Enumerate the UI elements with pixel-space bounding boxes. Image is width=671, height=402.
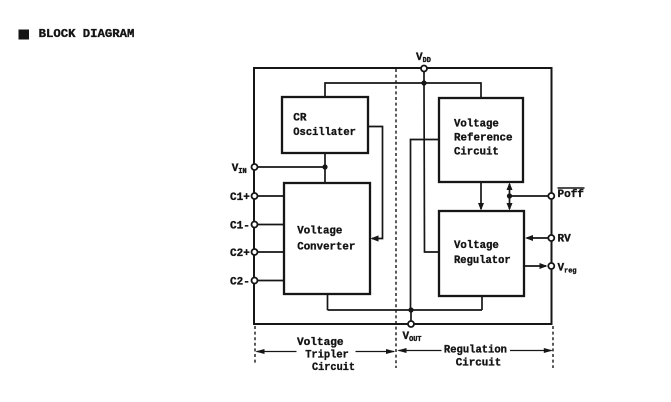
pin Vreg terminal circle [548, 263, 554, 269]
node: junction dot Poff [507, 193, 512, 198]
node: junction dot VDD bus [421, 80, 426, 85]
wire: CR Oscillator feedback to Voltage Converter [368, 127, 383, 239]
svg-text:Tripler: Tripler [305, 350, 349, 362]
svg-text:VIN: VIN [232, 163, 247, 176]
wire: VDD branch down to Voltage Regulator left [424, 83, 439, 252]
wire: C2- pin to Voltage Converter [255, 280, 284, 282]
pin C1- terminal circle [252, 222, 258, 228]
dashed extension right [552, 326, 554, 368]
wire: C1+ pin to Voltage Converter [255, 195, 284, 197]
arrowhead into Voltage Converter right edge [371, 235, 379, 241]
wire: C1- pin to Voltage Converter [255, 224, 284, 226]
dimension line Regulation span [397, 348, 553, 353]
wire: CR Oscillator bottom stub to Voltage Converter top [324, 153, 326, 183]
svg-text:Circuit: Circuit [454, 147, 499, 159]
IC boundary outer rectangle [254, 68, 552, 324]
svg-text:C1+: C1+ [230, 192, 250, 204]
Voltage Regulator box U4 [439, 211, 524, 296]
svg-text:Poff: Poff [558, 189, 585, 201]
svg-text:C2+: C2+ [230, 248, 250, 260]
wire: RV pin line [527, 237, 551, 239]
svg-text:Voltage: Voltage [454, 119, 499, 131]
svg-text:CR: CR [293, 113, 307, 125]
svg-text:Reference: Reference [454, 133, 513, 145]
wire: Poff pin line [510, 195, 552, 197]
wire: VOUT riser to Voltage Reference Circuit [411, 140, 440, 311]
svg-text:VDD: VDD [416, 52, 431, 65]
pin C2+ terminal circle [252, 249, 258, 255]
CR Oscillator box U1 [282, 97, 368, 153]
svg-text:Oscillater: Oscillater [293, 127, 356, 139]
wire: Voltage Converter bottom stub [327, 294, 329, 310]
pin Poff terminal circle [548, 193, 554, 199]
wire: VIN pin to CR Oscillator / Voltage Converter stub [255, 166, 325, 168]
svg-text:Voltage: Voltage [297, 337, 344, 349]
pin VIN terminal circle [252, 164, 258, 170]
svg-text:Regulator: Regulator [454, 255, 511, 267]
svg-text:Circuit: Circuit [312, 362, 355, 374]
Voltage Reference Circuit box U3 [439, 98, 523, 182]
wire: VDD stub from pin to supply bus [423, 69, 425, 84]
dimension line Voltage Tripler span [255, 349, 395, 354]
Voltage Converter box U2 [284, 183, 370, 294]
wire: double arrow link Reference/Regulator [509, 184, 511, 209]
node: junction dot VIN [322, 164, 327, 169]
title bullet square [19, 30, 30, 40]
wire: Vreg pin line [524, 265, 546, 267]
svg-text:RV: RV [558, 234, 572, 246]
label Poff with overline [558, 188, 585, 201]
wire: supply bus horizontal y=83 [325, 83, 481, 98]
wire: C2+ pin to Voltage Converter [255, 251, 284, 253]
svg-text:Converter: Converter [297, 242, 355, 254]
pin RV terminal circle [548, 235, 554, 241]
wire: Voltage Regulator bottom stub [481, 296, 483, 310]
svg-text:Vreg: Vreg [558, 263, 577, 276]
label Regulation Circuit [444, 345, 507, 370]
svg-text:VOUT: VOUT [403, 331, 422, 344]
svg-text:BLOCK DIAGRAM: BLOCK DIAGRAM [39, 27, 135, 41]
pin C2- terminal circle [252, 278, 258, 284]
svg-text:Voltage: Voltage [297, 226, 342, 238]
svg-text:Circuit: Circuit [456, 358, 502, 370]
arrowhead into Voltage Regulator right edge [525, 235, 533, 241]
dashed extension left [254, 326, 256, 365]
node: junction dot VOUT [408, 307, 413, 312]
pin VDD terminal circle [421, 66, 427, 72]
wire: Voltage Reference to Regulator arrow [480, 182, 482, 209]
pin VOUT terminal circle [408, 321, 414, 327]
arrowhead down into Voltage Regulator top [507, 203, 513, 211]
arrowhead down into Voltage Regulator [478, 203, 484, 211]
dashed partition line center [395, 69, 397, 368]
arrowhead toward Vreg pin [540, 263, 548, 269]
svg-text:C2-: C2- [230, 276, 250, 288]
pin C1+ terminal circle [252, 193, 258, 199]
label Voltage Tripler Circuit [297, 337, 355, 374]
wire: VOUT drop to pin [410, 310, 412, 324]
svg-text:Voltage: Voltage [454, 240, 499, 252]
svg-text:C1-: C1- [230, 220, 250, 232]
wire: bottom bus y=310 [328, 309, 483, 311]
arrowhead up into Voltage Reference Circuit [507, 183, 513, 191]
svg-text:Regulation: Regulation [444, 345, 507, 357]
